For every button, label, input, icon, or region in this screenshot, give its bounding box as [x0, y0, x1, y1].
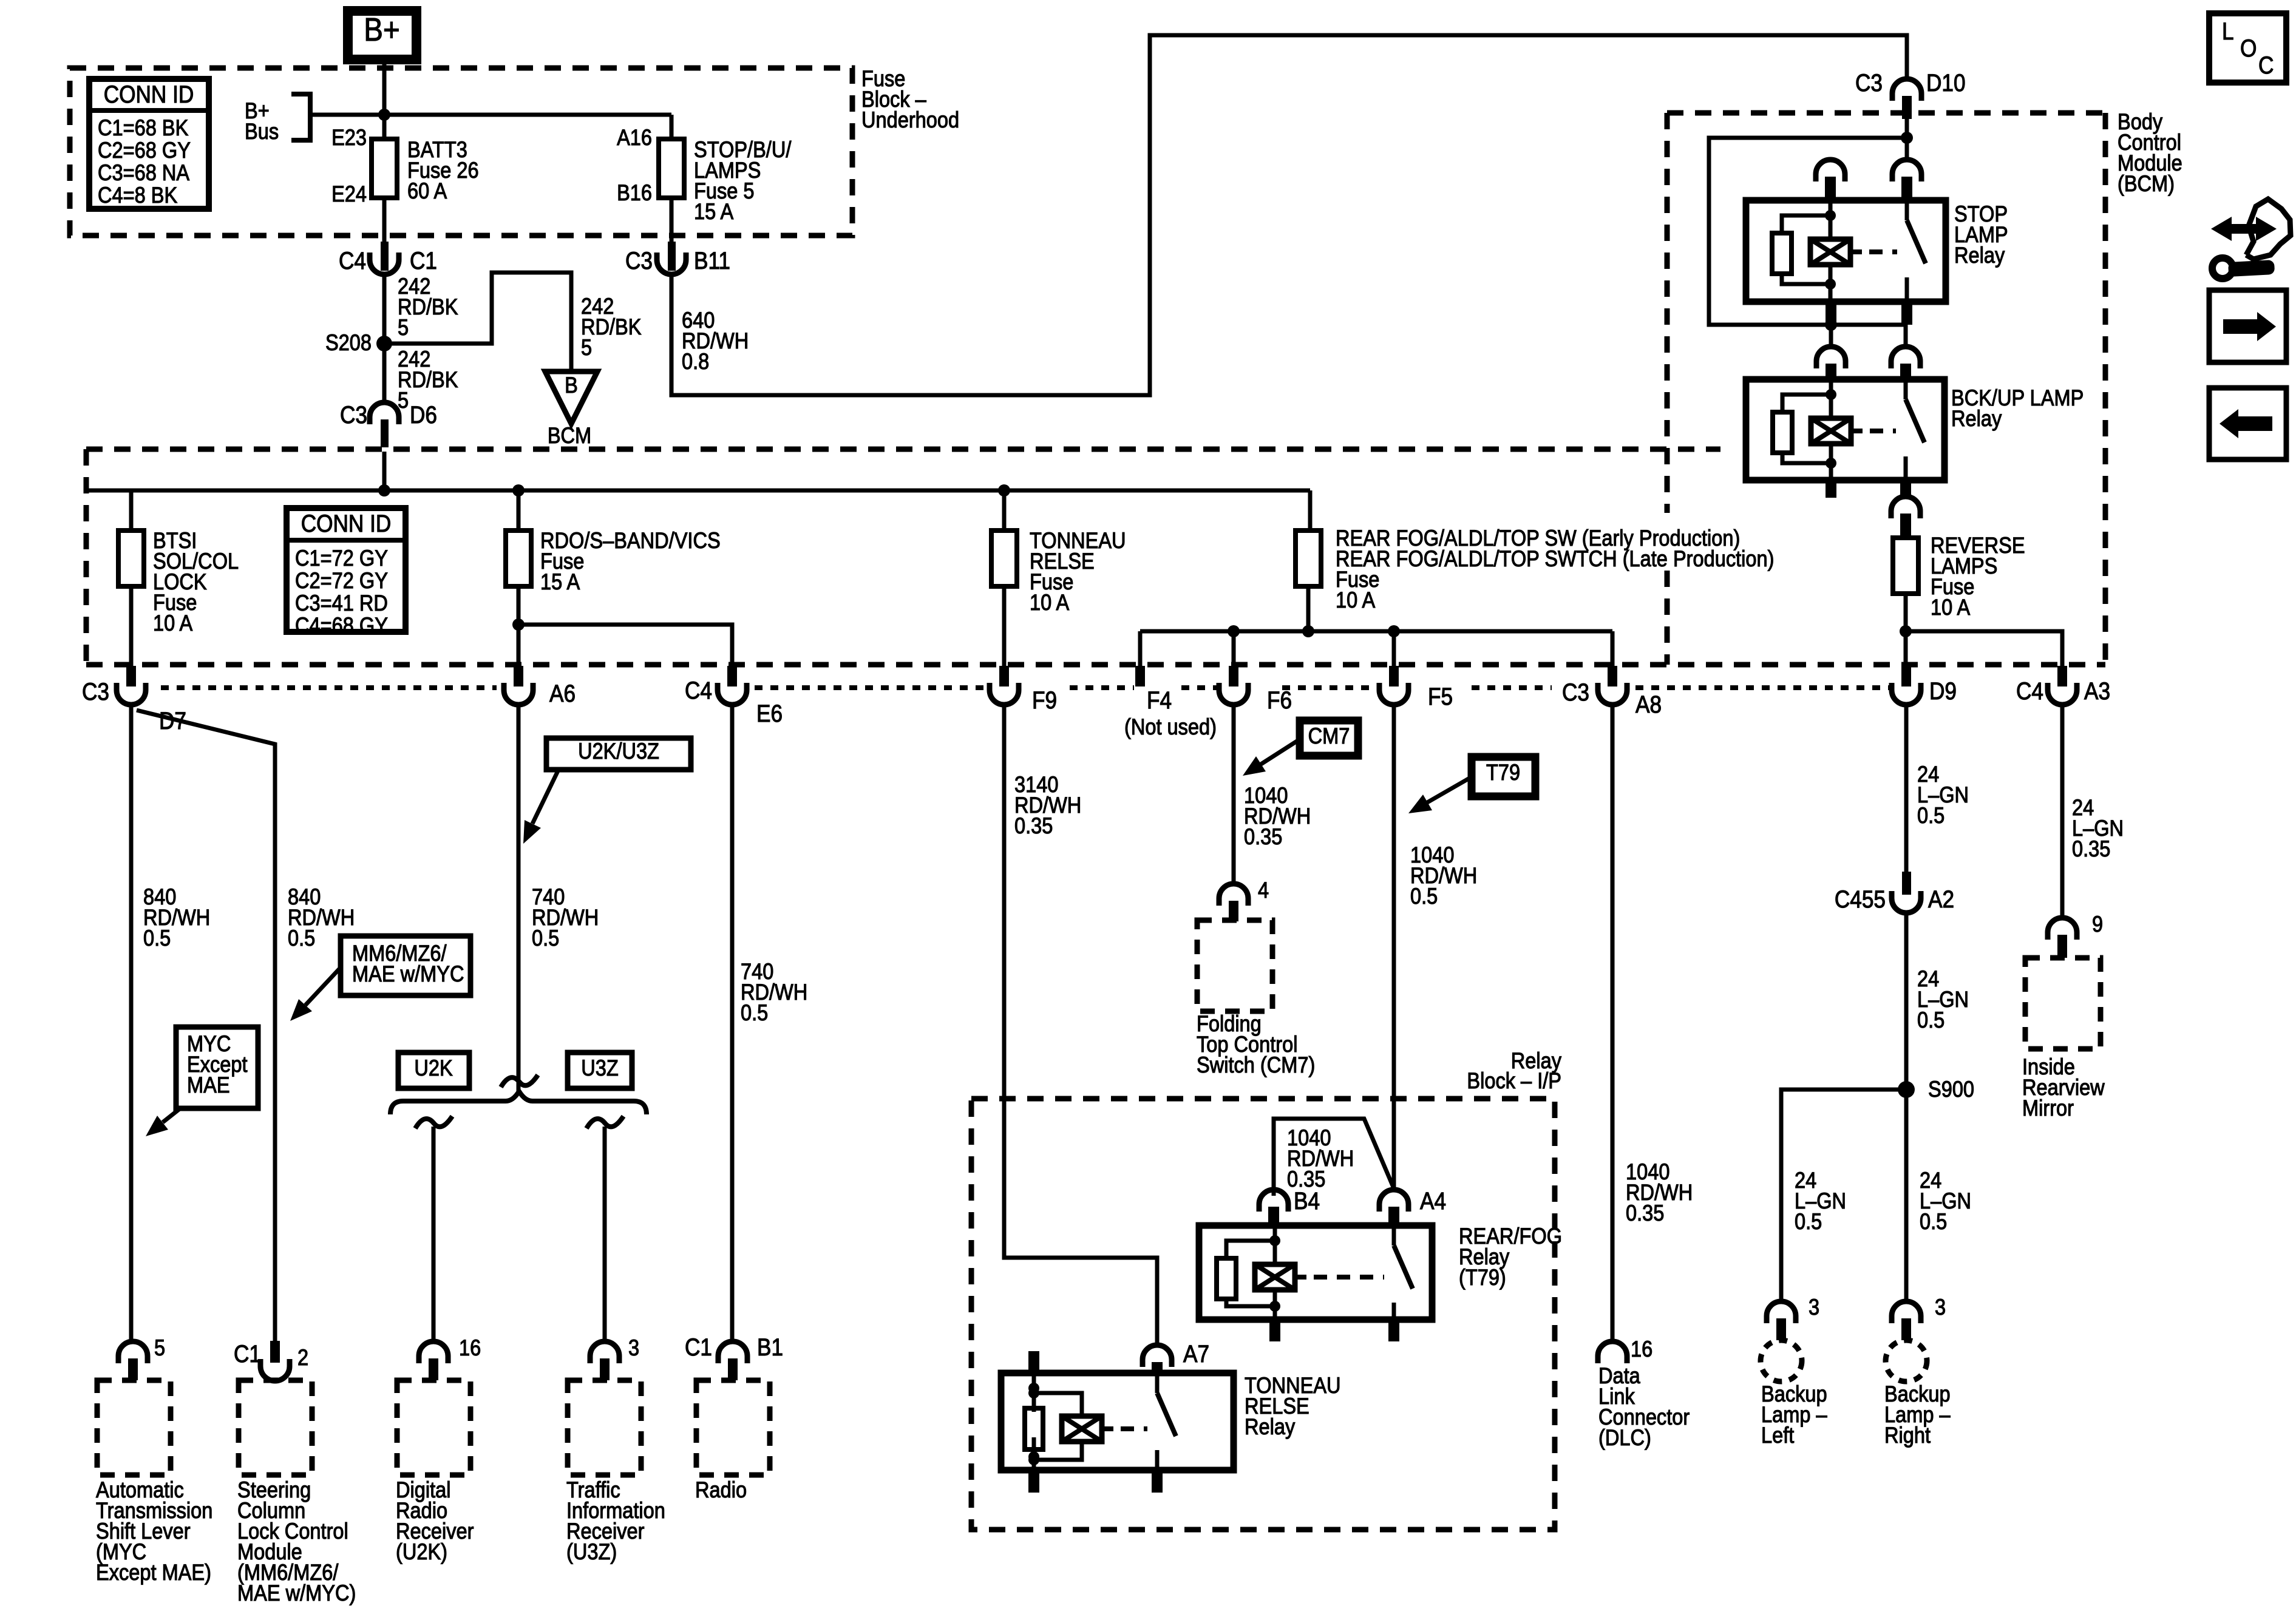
connector 3 right lamp: [1892, 1301, 1921, 1340]
label REAR/FOG Relay T79: [1459, 1224, 1562, 1290]
label BCK/UP LAMP Relay: [1951, 385, 2084, 431]
wire E6 down to radio: [730, 705, 735, 1341]
wire reverse to A3 branch: [1907, 631, 2062, 666]
svg-text:BCM: BCM: [548, 423, 591, 448]
junction stop relay feed: [1901, 132, 1913, 144]
svg-text:A2: A2: [1928, 886, 1954, 913]
junction F5 tap: [1388, 625, 1400, 637]
wire D9 down: [1904, 705, 1909, 873]
label 24 L-GN 0.35: [2072, 795, 2124, 861]
label C455: [1835, 886, 1886, 913]
label F5: [1428, 683, 1453, 710]
connector C455-A2: [1892, 872, 1921, 913]
stop relay switch bottom pin: [1901, 302, 1912, 325]
svg-text:10 A: 10 A: [1030, 590, 1070, 615]
icon back arrow box: [2209, 388, 2286, 459]
BCM B triangle: [545, 371, 597, 424]
break squiggle A6: [501, 1075, 538, 1087]
connector F6: [1219, 666, 1248, 705]
fuse TONNEAU RELSE 10A: [991, 531, 1017, 586]
label Data Link Connector DLC: [1598, 1363, 1690, 1450]
label BCM: [548, 423, 591, 448]
label B+ Bus: [245, 98, 279, 144]
label C1 at radio: [685, 1334, 712, 1361]
svg-text:0.35: 0.35: [2072, 836, 2110, 861]
label E6: [756, 700, 783, 727]
wire 640 RD/WH to BCM D10: [671, 35, 1907, 395]
label 16 dlc: [1631, 1337, 1652, 1361]
rearfog relay switch stub: [1388, 1320, 1399, 1341]
svg-text:0.5: 0.5: [741, 1000, 768, 1025]
svg-text:O: O: [2240, 35, 2257, 62]
label Backup Lamp Left: [1761, 1381, 1827, 1448]
label 3 left: [1809, 1295, 1819, 1320]
svg-text:0.5: 0.5: [1917, 803, 1944, 828]
svg-text:15 A: 15 A: [694, 199, 734, 224]
connector 2 steering column lock control module: [260, 1341, 290, 1381]
fuse STOP/B/U/LAMPS Fuse 5 15A: [659, 139, 684, 198]
label not used: [1124, 714, 1217, 739]
svg-text:9: 9: [2092, 912, 2103, 937]
svg-text:C1: C1: [234, 1340, 261, 1368]
wire to bckup switch terminal: [1904, 325, 1908, 347]
junction fuse tap: [1302, 625, 1314, 637]
box radio: [696, 1380, 770, 1475]
label 840 RD/WH 0.5 right: [288, 884, 355, 951]
svg-text:(T79): (T79): [1459, 1265, 1506, 1290]
svg-text:B: B: [565, 373, 578, 398]
bus line: [85, 489, 1310, 493]
label 2: [297, 1345, 308, 1370]
wire REARFOG out: [1306, 586, 1311, 631]
svg-text:B16: B16: [617, 180, 652, 205]
svg-text:F6: F6: [1267, 686, 1292, 714]
label C3 at B11: [625, 247, 653, 274]
tonneau switch bottom stub: [1152, 1470, 1163, 1493]
svg-text:L: L: [2222, 18, 2234, 45]
label STOP LAMP Relay: [1954, 202, 2008, 268]
label A8: [1635, 691, 1662, 718]
svg-text:C3=41 RD: C3=41 RD: [295, 591, 388, 615]
wire bus to BTSI fuse: [129, 490, 134, 531]
label Backup Lamp Right: [1884, 1381, 1951, 1448]
IP fuse block dashed box left: [84, 449, 89, 665]
wire D7 to shift lever: [129, 705, 134, 1341]
fuse BATT3 Fuse 26 60A: [372, 139, 397, 198]
wire bus to REARFOG fuse: [1308, 490, 1313, 531]
svg-text:Switch (CM7): Switch (CM7): [1197, 1053, 1315, 1077]
fuse RDO/S-BAND/VICS 15A: [506, 531, 531, 586]
reverse fuse terminal: [1891, 497, 1920, 538]
label TONNEAU RELSE Fuse 10 A: [1030, 528, 1126, 615]
label 242 RD/BK 5 lower: [398, 347, 458, 413]
svg-text:B4: B4: [1294, 1187, 1320, 1215]
svg-text:C1: C1: [410, 247, 437, 274]
wire B4 jumper: [1274, 1119, 1394, 1196]
label A6: [549, 680, 576, 707]
junction B+ bus: [378, 109, 390, 121]
svg-text:CM7: CM7: [1308, 724, 1350, 748]
box automatic transmission shift lever: [97, 1380, 171, 1475]
arrow MYC callout: [146, 1108, 180, 1136]
svg-text:Relay: Relay: [1954, 243, 2005, 268]
svg-text:15 A: 15 A: [540, 569, 580, 594]
label 640 RD/WH 0.8: [682, 308, 749, 374]
power feed B+ box: [348, 11, 416, 59]
wire TONNEAU out: [1002, 586, 1007, 666]
label radio: [695, 1477, 747, 1502]
connector C3-B11: [657, 242, 686, 274]
svg-text:S900: S900: [1928, 1077, 1974, 1102]
junction reverse out: [1900, 625, 1912, 637]
svg-text:Underhood: Underhood: [861, 107, 959, 132]
label D7: [159, 707, 186, 734]
connector 3 left lamp: [1767, 1301, 1796, 1340]
fuse block underhood dashed box: [70, 68, 852, 236]
svg-text:5: 5: [581, 335, 592, 360]
junction bus D6: [378, 484, 390, 497]
svg-text:D6: D6: [410, 401, 437, 429]
connector C4-E6: [718, 666, 747, 705]
fuse BTSI SOL/COL LOCK 10A: [118, 531, 144, 586]
label C4 at E6: [685, 677, 712, 704]
svg-text:5: 5: [398, 315, 409, 340]
junction F6 tap: [1228, 625, 1240, 637]
junction bckup feed: [1825, 319, 1837, 331]
svg-text:2: 2: [297, 1345, 308, 1370]
svg-text:Radio: Radio: [695, 1477, 747, 1502]
wire S208 to BCM triangle: [384, 273, 571, 370]
box steering column lock control module: [239, 1380, 312, 1475]
svg-text:C4: C4: [2016, 677, 2043, 705]
svg-text:U2K/U3Z: U2K/U3Z: [578, 739, 659, 764]
label F6: [1267, 686, 1292, 714]
label C3 at D10: [1855, 69, 1883, 97]
label A16: [617, 125, 652, 150]
label C4: [339, 247, 366, 274]
label 242 RD/BK 5 bcm: [581, 294, 641, 360]
svg-text:MAE: MAE: [187, 1073, 230, 1097]
bckup switch bottom pin: [1900, 480, 1911, 497]
label A7: [1183, 1340, 1209, 1368]
box folding top control switch: [1197, 920, 1272, 1011]
label A3: [2084, 677, 2110, 705]
svg-text:C2=68 GY: C2=68 GY: [98, 138, 191, 163]
label REAR FOG fuse: [1336, 526, 1774, 612]
label Body Control Module BCM: [2118, 109, 2182, 196]
label 24 L-GN 0.5 left: [1795, 1168, 1846, 1234]
connector B4: [1259, 1190, 1288, 1225]
svg-text:Relay: Relay: [1951, 406, 2002, 431]
connector F9: [990, 666, 1019, 705]
label Fuse Block - Underhood: [861, 66, 959, 132]
B+ bus bracket: [291, 94, 310, 140]
label A4: [1420, 1187, 1446, 1215]
label C3 at D7: [82, 678, 109, 705]
CONN ID table underhood: [89, 79, 209, 209]
svg-text:C1: C1: [685, 1334, 712, 1361]
svg-text:C3=68 NA: C3=68 NA: [98, 160, 190, 185]
relay block IP dashed box: [971, 1099, 1555, 1530]
wire to F6 connector: [1232, 631, 1236, 666]
label BATT3 Fuse 26 60 A: [407, 137, 479, 203]
svg-text:16: 16: [459, 1335, 481, 1360]
wire to bckup coil terminal: [1829, 325, 1833, 347]
svg-text:0.5: 0.5: [288, 926, 315, 951]
callout MYC Except MAE: [176, 1027, 258, 1108]
wire D6 to bus: [382, 452, 387, 490]
connector A6: [504, 666, 533, 705]
svg-text:A16: A16: [617, 125, 652, 150]
svg-text:(U3Z): (U3Z): [566, 1539, 617, 1564]
junction bus TONNEAU: [998, 484, 1010, 497]
wire to F4: [1138, 631, 1143, 666]
svg-text:16: 16: [1631, 1337, 1652, 1361]
connector C3-D6: [370, 402, 399, 447]
box U3Z option: [568, 1053, 632, 1088]
svg-text:Left: Left: [1761, 1423, 1795, 1448]
svg-text:C4: C4: [339, 247, 366, 274]
svg-text:MAE w/MYC: MAE w/MYC: [352, 961, 464, 986]
splice S208: [376, 336, 392, 351]
label STOP/B/U/LAMPS Fuse 5 15 A: [694, 137, 792, 224]
svg-text:C3: C3: [1562, 679, 1589, 706]
label 1040 RD/WH 0.35 b4: [1287, 1125, 1354, 1192]
label traffic information receiver U3Z: [566, 1477, 665, 1564]
svg-text:U3Z: U3Z: [581, 1056, 619, 1080]
connector C4-A3: [2048, 666, 2077, 705]
svg-text:A8: A8: [1635, 691, 1662, 718]
connector 16 DLC: [1598, 1341, 1627, 1363]
label 1040 RD/WH 0.35 dlc: [1626, 1159, 1693, 1225]
label 3140 RD/WH 0.35: [1014, 772, 1081, 838]
svg-text:A6: A6: [549, 680, 576, 707]
svg-text:E6: E6: [756, 700, 783, 727]
svg-text:Right: Right: [1884, 1423, 1931, 1448]
connector A4: [1379, 1190, 1408, 1225]
rearfog relay coil stub: [1269, 1320, 1280, 1341]
backup lamp left bulb: [1761, 1340, 1802, 1381]
label 840 RD/WH 0.5 left: [143, 884, 210, 951]
callout MM6/MZ6/MAE w/MYC: [341, 936, 470, 995]
svg-text:Bus: Bus: [245, 119, 279, 144]
svg-text:E24: E24: [331, 181, 367, 206]
svg-text:A4: A4: [1420, 1187, 1446, 1215]
BCM dashed box: [1667, 113, 2105, 665]
svg-text:3: 3: [628, 1335, 639, 1360]
svg-text:0.5: 0.5: [1795, 1209, 1822, 1234]
label B4: [1294, 1187, 1320, 1215]
svg-text:0.5: 0.5: [1920, 1209, 1947, 1234]
relay BCK/UP LAMP: [1746, 379, 1944, 480]
arrow CM7 callout: [1243, 739, 1300, 776]
label C3 at A8: [1562, 679, 1589, 706]
svg-text:0.35: 0.35: [1244, 824, 1282, 849]
label RDO/S-BAND/VICS Fuse 15 A: [540, 528, 721, 594]
bckup coil bottom stub: [1826, 480, 1836, 498]
IP fuse block dashed top: [86, 447, 1720, 452]
label 242 RD/BK 5 upper: [398, 274, 458, 340]
svg-text:D9: D9: [1929, 677, 1957, 705]
relay STOP LAMP: [1746, 200, 1946, 302]
svg-text:0.35: 0.35: [1626, 1201, 1664, 1225]
arrow T79 callout: [1408, 777, 1472, 813]
wire B11 drop: [670, 198, 674, 243]
wire A2 to S900: [1904, 913, 1909, 1090]
wire B+ to fuse BATT3: [382, 59, 387, 139]
svg-text:Relay: Relay: [1245, 1414, 1296, 1439]
label F9: [1032, 686, 1057, 714]
svg-text:B1: B1: [757, 1334, 783, 1361]
callout U2K/U3Z: [546, 738, 691, 770]
label D6: [410, 401, 437, 429]
wire bus to TONNEAU fuse: [1002, 490, 1007, 531]
arrow U2K/U3Z callout: [523, 770, 559, 844]
connector F5: [1379, 666, 1408, 705]
box U2K option: [398, 1053, 469, 1088]
junction RDO split: [512, 619, 525, 631]
wire A8 to DLC: [1611, 705, 1615, 1340]
svg-text:(DLC): (DLC): [1598, 1425, 1651, 1450]
svg-text:CONN ID: CONN ID: [301, 510, 392, 537]
svg-text:(Not used): (Not used): [1124, 714, 1217, 739]
svg-text:MAE w/MYC): MAE w/MYC): [237, 1581, 356, 1605]
connector 9 mirror: [2048, 918, 2077, 958]
label B11: [694, 247, 730, 274]
svg-text:3: 3: [1809, 1295, 1819, 1320]
wire A3 down: [2060, 705, 2065, 918]
svg-text:0.5: 0.5: [1917, 1008, 1944, 1032]
wire B+ bus: [310, 113, 384, 117]
stop relay switch terminal: [1892, 160, 1921, 200]
label 9: [2092, 912, 2103, 937]
label 4: [1258, 878, 1269, 903]
fuse REAR FOG/ALDL/TOP SW 10A: [1296, 531, 1321, 586]
connector C3-A8: [1598, 666, 1627, 705]
relay TONNEAU RELSE: [1001, 1373, 1234, 1470]
label 740 RD/WH 0.5 E6: [741, 959, 807, 1025]
svg-text:S208: S208: [325, 330, 372, 355]
bckup switch terminal: [1891, 347, 1920, 379]
wire F5 down: [1392, 705, 1396, 1190]
callout CM7: [1300, 720, 1358, 756]
label 24 L-GN 0.5 right: [1920, 1168, 1971, 1234]
label C4 at A3: [2016, 677, 2043, 705]
svg-text:C1=68 BK: C1=68 BK: [98, 115, 188, 140]
wire A6 down: [517, 705, 521, 1093]
label C1 at column lock: [234, 1340, 261, 1368]
connector C3-D7: [117, 666, 146, 705]
label 24 L-GN 0.5 a2: [1917, 966, 1969, 1032]
fuse REVERSE LAMPS 10A: [1893, 538, 1918, 594]
icon LOC box: [2209, 13, 2286, 83]
svg-text:C: C: [2258, 52, 2274, 79]
svg-text:0.5: 0.5: [1410, 884, 1438, 909]
icon hand wrench: [2211, 199, 2291, 279]
label S208: [325, 330, 372, 355]
svg-text:C3: C3: [625, 247, 653, 274]
label Folding Top Control Switch CM7: [1197, 1011, 1315, 1077]
label 16: [459, 1335, 481, 1360]
svg-text:A7: A7: [1183, 1340, 1209, 1368]
label 1040 RD/WH 0.35 cm7: [1244, 783, 1311, 849]
CONN ID table IP: [287, 508, 406, 638]
label 3: [628, 1335, 639, 1360]
svg-text:F5: F5: [1428, 683, 1453, 710]
rearfog distribution line: [1140, 629, 1612, 634]
wire S208 down: [382, 344, 387, 402]
svg-text:Mirror: Mirror: [2022, 1096, 2074, 1120]
svg-text:E23: E23: [331, 125, 367, 150]
wire to digital radio: [432, 1127, 436, 1343]
connector C4-C1: [370, 242, 399, 274]
svg-text:D10: D10: [1926, 69, 1966, 97]
icon forward arrow box: [2209, 290, 2286, 362]
label D9: [1929, 677, 1957, 705]
tonneau coil top pin: [1028, 1351, 1039, 1373]
wire stop relay feed loop: [1709, 138, 1907, 325]
svg-text:4: 4: [1258, 878, 1269, 903]
wire F9 down: [1004, 705, 1157, 1344]
svg-text:0.5: 0.5: [143, 926, 171, 951]
svg-text:U2K: U2K: [414, 1056, 452, 1080]
wire BATT3 to connector C4-C1: [382, 198, 387, 243]
svg-text:C2=72 GY: C2=72 GY: [295, 568, 388, 593]
label steering column lock control module: [237, 1477, 356, 1605]
svg-text:C4: C4: [685, 677, 712, 704]
callout T79: [1472, 757, 1535, 796]
junction bus RDO: [512, 484, 525, 497]
tonneau coil bottom stub: [1028, 1470, 1039, 1493]
wire RDO out: [517, 586, 521, 666]
connector C3-D10: [1892, 79, 1921, 119]
svg-text:Except MAE): Except MAE): [96, 1560, 211, 1585]
box inside rearview mirror: [2025, 958, 2101, 1049]
svg-text:B+: B+: [364, 11, 399, 48]
stop relay coil terminal: [1816, 160, 1845, 200]
svg-text:(BCM): (BCM): [2118, 171, 2175, 196]
svg-text:(U2K): (U2K): [396, 1539, 447, 1564]
label 5: [154, 1335, 165, 1360]
connector 3 traffic information receiver U3Z: [590, 1341, 619, 1380]
label 1040 RD/WH 0.5: [1410, 842, 1477, 909]
box traffic information receiver U3Z: [568, 1380, 641, 1475]
svg-text:0.5: 0.5: [532, 926, 559, 951]
break squiggle U3Z: [586, 1116, 623, 1128]
wire D7 diagonal to column lock: [137, 710, 275, 1341]
brace U2K/U3Z: [390, 1091, 647, 1114]
label digital radio receiver U2K: [396, 1477, 474, 1564]
label C3 at D6: [340, 401, 367, 429]
label S900: [1928, 1077, 1974, 1102]
connector row dotted line: [161, 685, 1889, 690]
IP fuse block dashed bottom: [86, 662, 2105, 668]
connector 5 automatic transmission shift lever: [118, 1341, 148, 1380]
wire D10 into BCM: [1905, 119, 1909, 138]
label TONNEAU RELSE Relay: [1245, 1373, 1341, 1439]
label F4: [1147, 686, 1172, 714]
svg-text:F9: F9: [1032, 686, 1057, 714]
svg-text:T79: T79: [1486, 760, 1520, 785]
svg-text:C455: C455: [1835, 886, 1886, 913]
svg-text:A3: A3: [2084, 677, 2110, 705]
break squiggle U2K: [415, 1116, 452, 1128]
label E23: [331, 125, 367, 150]
label B1: [757, 1334, 783, 1361]
wire to fuse STOP/B/U: [384, 115, 671, 139]
svg-text:60 A: 60 A: [407, 178, 447, 203]
svg-text:C1=72 GY: C1=72 GY: [295, 546, 388, 571]
